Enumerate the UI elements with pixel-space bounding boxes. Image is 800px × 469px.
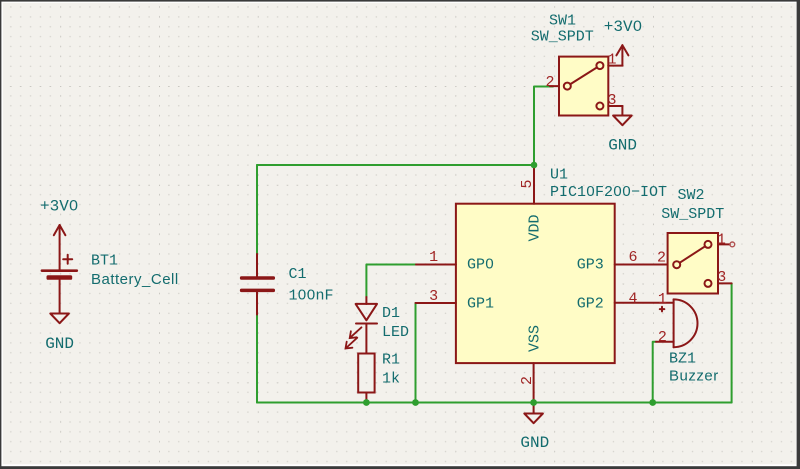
buzzer BZ1 body — [656, 299, 698, 347]
svg-text:GP2: GP2 — [577, 295, 604, 312]
svg-text:GND: GND — [45, 335, 74, 353]
svg-text:1: 1 — [717, 231, 726, 248]
svg-text:1: 1 — [658, 291, 667, 308]
ground battery — [50, 280, 69, 323]
SW1 pin 3 — [608, 105, 622, 107]
pin 6 GP3 — [615, 264, 668, 266]
svg-text:2: 2 — [658, 329, 667, 346]
resistor R1 — [358, 354, 374, 393]
svg-text:SW2: SW2 — [678, 187, 705, 204]
svg-text:1k: 1k — [382, 370, 400, 387]
LED arrows — [346, 327, 362, 348]
svg-text:SW_SPDT: SW_SPDT — [661, 206, 724, 223]
svg-text:1: 1 — [607, 52, 616, 69]
svg-text:5: 5 — [519, 179, 536, 188]
svg-text:U1: U1 — [550, 166, 568, 183]
wire SW1 pin2 to VDD junction — [534, 87, 553, 166]
SW1 pin 1 — [608, 65, 622, 67]
svg-text:2: 2 — [657, 249, 666, 266]
junction buzzer net — [649, 399, 656, 406]
svg-text:R1: R1 — [382, 351, 400, 368]
wire C1 bottom vertical — [256, 313, 258, 403]
battery BT1 — [41, 255, 79, 280]
svg-text:Battery_Cell: Battery_Cell — [91, 271, 179, 288]
pin 1 GP0 — [416, 264, 456, 266]
svg-text:4: 4 — [628, 290, 637, 307]
IC U1 body — [456, 204, 615, 363]
SW1 pin 2 — [550, 85, 559, 87]
wire GP1 down to GND net — [415, 303, 417, 403]
wire C1 top vertical — [256, 165, 258, 256]
svg-text:SW_SPDT: SW_SPDT — [531, 29, 594, 46]
capacitor C1 — [240, 254, 275, 315]
svg-text:2: 2 — [519, 376, 536, 385]
svg-text:3: 3 — [717, 269, 726, 286]
SW2 contacts — [673, 241, 711, 287]
wire buzzer pin2 to GND net — [653, 342, 656, 403]
svg-text:1: 1 — [429, 249, 438, 266]
svg-text:VDD: VDD — [527, 214, 544, 241]
power +3V0 SW1 — [616, 45, 628, 65]
svg-text:3: 3 — [429, 288, 438, 305]
SW1 contacts — [564, 62, 604, 109]
svg-text:BT1: BT1 — [91, 252, 118, 269]
svg-text:GP3: GP3 — [577, 256, 604, 273]
junction VSS net — [530, 399, 537, 406]
wire GP0 to LED branch — [366, 265, 416, 298]
power +3V0 battery — [54, 225, 66, 269]
svg-text:LED: LED — [382, 324, 409, 341]
SW2 pin 1 (unconnected) — [718, 243, 730, 245]
svg-text:6: 6 — [628, 249, 637, 266]
svg-text:2: 2 — [545, 74, 554, 91]
svg-text:Buzzer: Buzzer — [669, 368, 719, 385]
junction GP1 net — [412, 399, 419, 406]
switch SW2 body — [668, 233, 718, 294]
svg-text:BZ1: BZ1 — [669, 350, 696, 367]
wire bottom horizontal GND net — [257, 402, 732, 404]
pin 3 GP1 — [416, 302, 456, 304]
svg-text:SW1: SW1 — [549, 12, 576, 29]
zero glyph dot covers — [72, 24, 639, 297]
svg-text:GP1: GP1 — [467, 295, 494, 312]
LED D1 — [356, 297, 377, 354]
wire SW2 pin3 down to GND net — [731, 283, 733, 402]
SW2 pin 3 — [718, 282, 732, 284]
svg-text:GND: GND — [608, 136, 637, 154]
svg-text:GND: GND — [520, 434, 549, 452]
svg-text:3: 3 — [607, 92, 616, 109]
junction LED bottom — [363, 399, 370, 406]
wire top horizontal VDD net — [257, 164, 534, 166]
switch SW1 body — [559, 57, 608, 116]
ground VSS — [524, 403, 543, 424]
svg-text:C1: C1 — [289, 266, 307, 283]
pin 4 GP2 — [615, 302, 674, 304]
junction VDD net — [531, 162, 538, 169]
svg-text:D1: D1 — [382, 305, 400, 322]
pin 2 VSS — [533, 363, 535, 402]
pin 5 VDD — [533, 165, 535, 204]
svg-text:VSS: VSS — [527, 325, 544, 352]
ground SW1 — [613, 106, 632, 125]
svg-text:PIC10F200−IOT: PIC10F200−IOT — [550, 184, 667, 201]
